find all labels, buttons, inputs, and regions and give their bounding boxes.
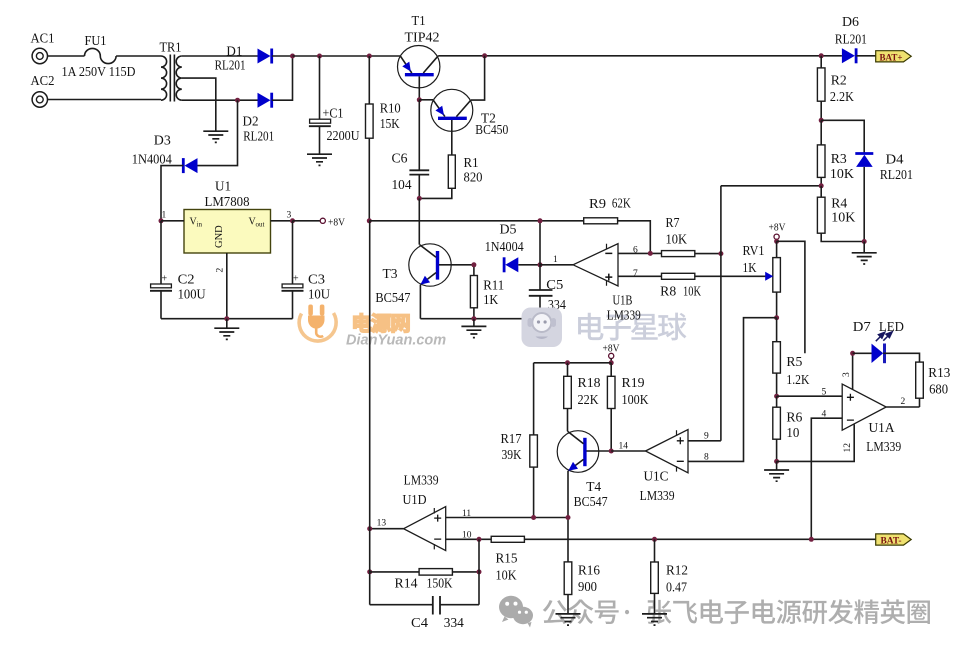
- svg-text:R8: R8: [660, 284, 676, 299]
- svg-text:DianYuan.com: DianYuan.com: [346, 333, 446, 349]
- svg-text:10K: 10K: [683, 284, 701, 299]
- svg-text:D6: D6: [842, 14, 859, 29]
- comparator U1A LM339: [822, 372, 906, 454]
- terminal AC2: [31, 73, 55, 107]
- capacitor C6 104: [392, 100, 430, 199]
- led D7: [853, 319, 905, 363]
- svg-text:D1: D1: [226, 44, 242, 59]
- svg-text:12: 12: [843, 443, 853, 453]
- svg-text:R9: R9: [589, 196, 606, 211]
- svg-text:2.2K: 2.2K: [830, 89, 854, 104]
- svg-text:GND: GND: [214, 225, 225, 248]
- node +8V pullup: [538, 218, 543, 223]
- svg-text:RL201: RL201: [215, 58, 246, 73]
- power port +8V RV1: [769, 223, 786, 242]
- node rectifier output: [290, 54, 295, 59]
- svg-text:10U: 10U: [308, 287, 330, 302]
- svg-text:5: 5: [822, 388, 827, 398]
- svg-text:R4: R4: [831, 196, 847, 211]
- resistor R14 150K: [370, 569, 479, 591]
- svg-text:R17: R17: [501, 431, 522, 446]
- svg-text:R18: R18: [578, 375, 601, 390]
- wire U1D pin11: [446, 517, 568, 519]
- svg-text:+8V: +8V: [769, 223, 786, 234]
- svg-text:RL201: RL201: [243, 129, 274, 144]
- svg-text:out: out: [256, 221, 265, 229]
- wire pin10 column: [478, 539, 480, 604]
- capacitor C3 10U: [282, 221, 331, 319]
- svg-text:R16: R16: [578, 563, 600, 578]
- resistor R4 10K: [817, 186, 864, 242]
- svg-text:100U: 100U: [178, 287, 206, 302]
- svg-text:D5: D5: [500, 222, 517, 237]
- node T4 base junction: [609, 449, 614, 454]
- svg-text:LM7808: LM7808: [205, 194, 250, 209]
- wire U1A output pin2: [886, 406, 919, 408]
- svg-text:R2: R2: [831, 73, 847, 88]
- svg-text:LM339: LM339: [640, 488, 675, 503]
- svg-text:R14: R14: [395, 576, 418, 591]
- resistor R6 10: [773, 396, 803, 461]
- node +8V R10 junction: [367, 218, 372, 223]
- ground center tap: [203, 131, 228, 142]
- svg-text:0.47: 0.47: [666, 580, 687, 595]
- ground R16: [556, 614, 581, 625]
- node pin4 junction: [809, 537, 814, 542]
- wire feedback column: [720, 186, 722, 441]
- svg-text:820: 820: [464, 170, 483, 185]
- resistor R18 22K: [564, 363, 601, 431]
- svg-text:R15: R15: [496, 551, 518, 566]
- capacitor C5 334: [529, 265, 566, 319]
- ground T3: [461, 319, 486, 338]
- node R11 top: [471, 262, 476, 267]
- watermark xingqiu badge: [522, 308, 563, 348]
- node R6 bottom junction: [774, 459, 779, 464]
- svg-text:BC450: BC450: [475, 122, 508, 137]
- node R14 left junction: [367, 569, 372, 574]
- wire pin3 to +8V port: [293, 220, 321, 222]
- svg-text:R7: R7: [666, 215, 680, 230]
- svg-text:TR1: TR1: [160, 40, 182, 55]
- node +8V RV1 junction: [774, 239, 779, 244]
- transformer TR1: [160, 40, 182, 102]
- wire rail right segment: [438, 55, 842, 57]
- svg-text:10K: 10K: [666, 232, 688, 247]
- svg-text:D4: D4: [886, 152, 904, 167]
- svg-text:22K: 22K: [578, 392, 599, 407]
- node T1 base junction: [417, 97, 422, 102]
- wire T2 collector: [471, 56, 485, 100]
- resistor R3 10K: [817, 120, 854, 186]
- wire R3R4 tap to column: [721, 185, 821, 187]
- resistor R1 820: [419, 155, 482, 198]
- wire LED cathode to R13: [883, 353, 919, 362]
- ground C1: [307, 154, 332, 165]
- node R10 top: [367, 54, 372, 59]
- svg-text:334: 334: [444, 615, 464, 630]
- capacitor C1 2200U: [309, 56, 360, 154]
- port BAT-: [876, 534, 912, 547]
- svg-text:14: 14: [619, 442, 629, 452]
- svg-text:+8V: +8V: [603, 344, 620, 355]
- wire pin5: [777, 395, 843, 397]
- svg-text:10: 10: [786, 425, 799, 440]
- svg-text:1.2K: 1.2K: [786, 372, 809, 387]
- svg-text:R11: R11: [483, 278, 504, 293]
- svg-text:R5: R5: [786, 354, 802, 369]
- svg-text:T3: T3: [383, 266, 398, 281]
- diode D6 RL201: [835, 14, 867, 63]
- diode D1 RL201: [215, 44, 272, 73]
- node bottom bus gnd: [471, 316, 476, 321]
- svg-text:LM339: LM339: [404, 473, 439, 488]
- resistor R10 15K: [366, 56, 401, 221]
- node R12 junction: [652, 537, 657, 542]
- wire ground bus C2 C3: [161, 318, 293, 320]
- svg-text:FU1: FU1: [85, 33, 107, 48]
- svg-text:+: +: [162, 274, 168, 285]
- resistor R9 62K: [584, 196, 651, 254]
- svg-text:R13: R13: [928, 365, 950, 380]
- wire secondary to D3: [198, 100, 238, 165]
- wire D1 cathode: [272, 55, 293, 57]
- transistor T1 TIP42: [398, 13, 440, 100]
- wire battery minus sense line: [524, 538, 875, 540]
- wire pin12 to ground: [777, 425, 855, 462]
- svg-text:1A 250V 115D: 1A 250V 115D: [62, 64, 136, 79]
- svg-text:C5: C5: [546, 277, 563, 292]
- node U1B output node: [538, 262, 543, 267]
- resistor R8 10K: [660, 273, 767, 298]
- svg-text:7: 7: [633, 269, 638, 279]
- transistor T2 BC450: [431, 89, 509, 155]
- wire AC2 to TR1: [48, 99, 162, 101]
- comparator U1D LM339: [377, 473, 472, 551]
- wire D6 to BAT+: [856, 55, 875, 57]
- watermark dianyuan logo: [299, 305, 336, 342]
- diode D5 1N4004: [485, 222, 524, 273]
- svg-text:1K: 1K: [743, 260, 757, 275]
- resistor R16 900: [564, 562, 600, 614]
- node rail R2 junction: [819, 53, 824, 58]
- wire D3 cathode to U1 Vin: [161, 166, 183, 221]
- svg-text:2200U: 2200U: [327, 128, 360, 143]
- wire U1 gnd pin: [226, 253, 228, 319]
- wire pin13 column: [369, 221, 371, 529]
- wire D5 anode: [518, 264, 540, 266]
- power port +8V out: [320, 218, 345, 229]
- svg-text:T1: T1: [412, 13, 426, 28]
- ground R12: [642, 614, 667, 625]
- node R18 top: [565, 360, 570, 365]
- wire U1B pin7: [618, 275, 662, 277]
- svg-text:BAT-: BAT-: [881, 537, 902, 547]
- svg-text:+8V: +8V: [328, 218, 345, 229]
- svg-text:R19: R19: [622, 375, 645, 390]
- svg-text:R3: R3: [831, 151, 847, 166]
- wire TR1 secondary bottom: [182, 99, 258, 101]
- resistor R11 1K: [470, 265, 504, 319]
- svg-text:R6: R6: [786, 410, 802, 425]
- svg-text:R12: R12: [666, 563, 688, 578]
- svg-text:RL201: RL201: [835, 32, 867, 47]
- svg-text:BAT+: BAT+: [880, 53, 903, 63]
- wire output pullup to +8V: [539, 221, 541, 265]
- comparator U1C LM339: [619, 430, 710, 503]
- svg-text:U1C: U1C: [644, 469, 669, 484]
- svg-text:1N4004: 1N4004: [132, 152, 172, 167]
- wire U1 pin3: [271, 220, 293, 222]
- svg-text:C3: C3: [308, 272, 325, 287]
- resistor R5 1.2K: [773, 318, 810, 397]
- svg-text:8: 8: [704, 453, 709, 463]
- node C1 top: [317, 54, 322, 59]
- svg-text:U1B: U1B: [613, 293, 633, 308]
- capacitor C2 100U: [150, 221, 206, 319]
- svg-text:BC547: BC547: [574, 494, 608, 509]
- node pin10 junction: [477, 537, 482, 542]
- regulator U1 LM7808: [162, 179, 292, 273]
- node R2 bottom junction: [819, 118, 824, 123]
- node LED anode junction: [850, 351, 855, 356]
- node D4 ground junction: [862, 239, 867, 244]
- potentiometer RV1 1K: [743, 241, 781, 317]
- svg-text:3: 3: [287, 211, 292, 221]
- terminal AC1: [31, 31, 55, 64]
- svg-text:D2: D2: [243, 114, 259, 129]
- wire rail left segment: [293, 55, 401, 57]
- node U1 pin3: [290, 218, 295, 223]
- ground U1: [214, 319, 239, 340]
- svg-text:2: 2: [216, 268, 226, 273]
- svg-text:C6: C6: [392, 151, 408, 166]
- power port +8V T4: [603, 344, 620, 363]
- svg-text:LM339: LM339: [607, 308, 641, 323]
- svg-text:T4: T4: [586, 479, 601, 494]
- wire TR1 secondary top: [182, 55, 258, 57]
- transistor T3 BC547: [375, 198, 474, 318]
- ground R6: [764, 461, 789, 481]
- wire D2 cathode up to rail: [272, 56, 293, 100]
- svg-text:1N4004: 1N4004: [485, 239, 524, 254]
- wire U1B pin6: [618, 252, 662, 254]
- svg-text:D7: D7: [853, 319, 871, 334]
- capacitor C4 334: [370, 596, 479, 630]
- svg-text:+: +: [293, 274, 299, 285]
- svg-text:RL201: RL201: [880, 167, 913, 182]
- wire +8V line: [369, 220, 583, 222]
- node R14 right junction: [477, 569, 482, 574]
- svg-text:U1D: U1D: [403, 492, 427, 507]
- node T4 emitter pin11: [566, 515, 571, 520]
- transistor T4 BC547: [557, 431, 611, 562]
- wire +8V lower line: [534, 362, 612, 364]
- svg-text:2: 2: [901, 397, 906, 407]
- svg-text:10K: 10K: [830, 166, 854, 181]
- wire T4 base to U1C: [611, 450, 645, 452]
- svg-text:900: 900: [578, 579, 597, 594]
- resistor R13 680: [916, 362, 951, 407]
- resistor R19 100K: [607, 363, 648, 451]
- svg-text:104: 104: [392, 177, 412, 192]
- svg-text:RV1: RV1: [743, 243, 765, 258]
- svg-text:15K: 15K: [380, 116, 400, 131]
- svg-text:AC2: AC2: [31, 73, 55, 88]
- diode D2 RL201: [243, 93, 275, 144]
- wire U1A pin4: [811, 418, 842, 539]
- node RV1 bottom junction: [774, 315, 779, 320]
- wire U1B output: [540, 264, 573, 266]
- wire AC1 to fuse: [48, 55, 85, 57]
- wire R2 to D4: [821, 120, 864, 153]
- node ground bus: [224, 316, 229, 321]
- ground R4 D4: [852, 242, 877, 265]
- resistor R15 10K: [491, 536, 524, 582]
- node R5 R6 junction: [774, 394, 779, 399]
- svg-text:LED: LED: [879, 319, 904, 334]
- node R7 right junction: [718, 251, 723, 256]
- node pin6 junction: [648, 251, 653, 256]
- node R3 R4 junction: [819, 183, 824, 188]
- wire TR1 center tap: [182, 78, 216, 131]
- node T2 collector rail: [482, 53, 487, 58]
- resistor R17 39K: [501, 363, 538, 518]
- svg-text:in: in: [197, 221, 203, 229]
- svg-text:1: 1: [553, 255, 558, 265]
- svg-text:BC547: BC547: [375, 290, 410, 305]
- svg-text:62K: 62K: [612, 196, 631, 211]
- svg-text:AC1: AC1: [31, 31, 55, 46]
- wire pin13 down to C4: [369, 529, 371, 605]
- svg-text:10K: 10K: [831, 210, 855, 225]
- wire U1D output pin13: [370, 528, 404, 530]
- svg-text:C4: C4: [411, 615, 428, 630]
- wire U1A vcc pin3: [852, 353, 854, 389]
- diode D3 1N4004: [132, 133, 198, 174]
- svg-text:C2: C2: [178, 272, 195, 287]
- svg-text:150K: 150K: [427, 576, 453, 591]
- svg-text:R1: R1: [464, 155, 479, 170]
- wire RV1 bottom to U1C pin8: [688, 318, 777, 462]
- wire +8V to U1A vcc: [777, 241, 805, 353]
- wire U1 pin1: [161, 220, 184, 222]
- comparator U1B LM339: [553, 244, 641, 323]
- svg-text:3: 3: [842, 372, 852, 377]
- node +8V T4 junction: [609, 360, 614, 365]
- svg-text:TIP42: TIP42: [405, 30, 440, 45]
- svg-text:10K: 10K: [496, 568, 517, 583]
- port BAT+: [876, 51, 912, 64]
- svg-text:100K: 100K: [622, 392, 649, 407]
- watermarks: [346, 313, 930, 625]
- svg-text:U1: U1: [215, 179, 231, 194]
- wire U1D pin10: [446, 538, 492, 540]
- resistor R7 10K: [662, 215, 721, 257]
- wire fuse to TR1: [116, 55, 161, 57]
- node R17 bottom pin11: [531, 515, 536, 520]
- svg-text:13: 13: [377, 519, 387, 529]
- watermark wechat icon: [499, 596, 533, 628]
- wire T3 bottom bus: [420, 318, 540, 320]
- svg-text:R10: R10: [380, 101, 401, 116]
- svg-text:680: 680: [929, 382, 948, 397]
- svg-text:+C1: +C1: [323, 106, 344, 121]
- svg-text:39K: 39K: [502, 447, 522, 462]
- wire T1 base to T2: [419, 99, 433, 101]
- svg-text:LM339: LM339: [866, 439, 901, 454]
- svg-text:1K: 1K: [483, 292, 498, 307]
- svg-text:U1A: U1A: [869, 420, 895, 435]
- svg-text:D3: D3: [154, 133, 171, 148]
- node secondary bottom junction: [235, 98, 240, 103]
- wire U1C pin9: [688, 440, 721, 442]
- diode D4 RL201: [855, 152, 913, 242]
- resistor R12 0.47: [651, 539, 688, 614]
- fuse FU1: [62, 33, 136, 79]
- node pin13 junction: [367, 526, 372, 531]
- node U1 pin1: [159, 218, 164, 223]
- node T3 collector junction: [417, 196, 422, 201]
- resistor R2 2.2K: [817, 56, 854, 121]
